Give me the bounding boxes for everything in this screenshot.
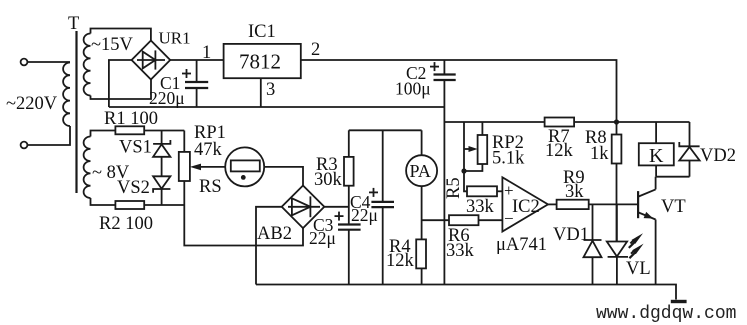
wire [27, 126, 70, 145]
svg-text:VD2: VD2 [700, 146, 736, 166]
svg-text:47k: 47k [194, 140, 223, 160]
transformer core [75, 31, 77, 193]
svg-text:33k: 33k [466, 197, 495, 217]
svg-text:1: 1 [202, 43, 211, 63]
VL light arrows [629, 233, 644, 258]
relay K [639, 122, 674, 177]
top measuring line [349, 129, 422, 131]
wire AB2 left to ground bus [256, 207, 282, 285]
svg-text:12k: 12k [386, 251, 415, 271]
LED VL [607, 204, 628, 284]
wire [27, 61, 70, 63]
capacitor C2 [430, 62, 456, 80]
wire [170, 59, 223, 61]
wire [91, 198, 116, 205]
wire K-VD2 bottom [656, 176, 689, 178]
svg-text:22μ: 22μ [309, 228, 336, 248]
capacitor C1 [182, 60, 208, 107]
wire [574, 121, 616, 123]
svg-text:12k: 12k [545, 141, 574, 161]
svg-text:22μ: 22μ [351, 205, 378, 225]
resistor R2 [115, 201, 144, 209]
resistor R9 [548, 200, 638, 209]
secondary winding 15V [84, 34, 91, 96]
secondary winding 8V [84, 137, 91, 199]
zener VS2 [153, 176, 170, 205]
svg-text:2: 2 [311, 40, 320, 60]
sensor RS [225, 147, 264, 186]
primary terminal top [21, 59, 28, 66]
svg-text:R2 100: R2 100 [99, 214, 153, 234]
transistor VT [638, 177, 656, 285]
svg-text:100μ: 100μ [395, 79, 431, 99]
svg-text:T: T [68, 14, 79, 34]
meter PA [406, 130, 437, 239]
svg-text:~220V: ~220V [6, 94, 58, 114]
svg-text:5.1k: 5.1k [492, 149, 525, 169]
svg-text:3k: 3k [565, 182, 584, 202]
resistor R4 [416, 239, 426, 284]
wire [144, 204, 184, 206]
svg-text:VT: VT [661, 197, 686, 217]
resistor R3 [344, 130, 354, 223]
svg-text:VD1: VD1 [553, 225, 589, 245]
svg-text:AB2: AB2 [257, 224, 292, 244]
zener VS1 [153, 131, 170, 157]
capacitor C3 [335, 212, 361, 285]
bottom ground bus [256, 285, 676, 300]
op-amp IC2 [502, 177, 548, 231]
wire C2/ground vertical [443, 60, 445, 75]
svg-text:RS: RS [199, 177, 222, 197]
primary terminal bottom [21, 142, 28, 149]
primary winding [63, 63, 70, 127]
+12V rail [301, 60, 617, 122]
wire [161, 157, 163, 177]
svg-text:μA741: μA741 [496, 235, 547, 255]
bridge rectifier UR1 [132, 41, 171, 80]
wire K/VD2 top [617, 121, 690, 123]
wire RS to bridge [264, 167, 303, 186]
svg-text:UR1: UR1 [159, 29, 191, 48]
wire [91, 29, 151, 41]
svg-text:1k: 1k [590, 144, 609, 164]
svg-text:7812: 7812 [239, 50, 281, 74]
resistor R7 [545, 118, 575, 127]
bridge rectifier AB2 [282, 186, 325, 229]
wire pin3 [260, 78, 262, 107]
junction [614, 119, 619, 124]
svg-text:VS2: VS2 [117, 178, 150, 198]
svg-text:K: K [649, 145, 664, 167]
ground bus [109, 106, 445, 108]
wire [91, 80, 152, 100]
wire branch to R7 [444, 121, 544, 123]
svg-text:~15V: ~15V [91, 35, 134, 55]
svg-text:VS1: VS1 [119, 138, 152, 158]
resistor R5 [464, 171, 502, 196]
svg-text:PA: PA [410, 161, 431, 181]
RP1 wiper arrow [190, 164, 225, 171]
resistor R6 [422, 215, 503, 225]
wire [91, 131, 116, 137]
diode VD1 [584, 204, 602, 284]
svg-text:IC2: IC2 [512, 197, 540, 217]
svg-text:3: 3 [266, 80, 275, 100]
resistor R1 [115, 126, 144, 134]
svg-text:30k: 30k [314, 170, 343, 190]
capacitor C4 [369, 130, 394, 284]
wire [144, 130, 184, 132]
regulator IC1 [224, 44, 301, 78]
svg-text:R1 100: R1 100 [104, 109, 158, 129]
svg-text:220μ: 220μ [149, 88, 185, 108]
potentiometer RP1 [179, 131, 190, 206]
svg-text:www.dgdqw.com: www.dgdqw.com [596, 304, 736, 324]
svg-text:33k: 33k [446, 241, 475, 261]
svg-text:VL: VL [626, 259, 651, 279]
resistor R8 [612, 122, 622, 242]
wire AB2 right [324, 206, 349, 208]
svg-text:R5: R5 [444, 177, 464, 199]
potentiometer RP2 [464, 122, 487, 171]
ground [671, 300, 687, 303]
wire AB2 bottom [184, 205, 303, 246]
wire [109, 60, 132, 107]
diode VD2 [679, 122, 699, 177]
junction [461, 168, 466, 173]
svg-text:IC1: IC1 [248, 22, 276, 42]
